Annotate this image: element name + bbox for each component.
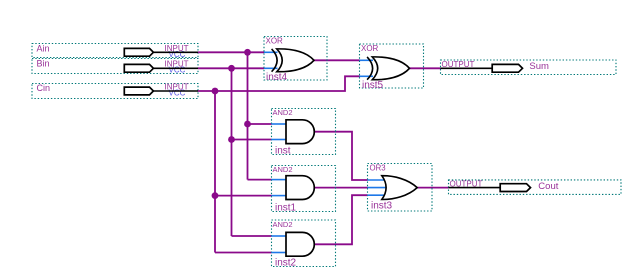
wire Bin to AND2 inst bottom input (232, 139, 272, 141)
wire AND2 inst output down to OR3 top input (314, 132, 367, 180)
svg-text:inst1: inst1 (275, 202, 297, 213)
wire Ain to AND2 inst top input (248, 123, 272, 125)
and gate inst2 (272, 220, 336, 269)
svg-text:XOR: XOR (266, 37, 284, 46)
output pin Sum (441, 60, 617, 75)
svg-text:VCC: VCC (169, 50, 186, 59)
output pin Cout (449, 180, 622, 195)
wire Cin vertical branch x=215 (214, 91, 216, 253)
svg-text:VCC: VCC (169, 89, 186, 98)
svg-text:Bin: Bin (37, 59, 50, 69)
wire Ain branch corner to AND2 inst1 top input (248, 179, 272, 181)
input pin Cin (32, 83, 198, 99)
wire Cin horizontal then up to XOR inst5 bottom input (198, 76, 360, 91)
wire AND2 inst2 output up to OR3 bottom input (314, 195, 367, 244)
svg-text:Ain: Ain (37, 43, 50, 53)
junction Bin to inst (228, 136, 235, 143)
svg-text:inst2: inst2 (275, 257, 297, 268)
wire Ain horizontal to XOR inst4 top input (198, 51, 264, 53)
svg-text:AND2: AND2 (273, 108, 293, 117)
input pin Bin (32, 59, 198, 75)
wire OR3 output to OUTPUT Cout (417, 187, 448, 189)
svg-text:inst5: inst5 (362, 80, 384, 91)
svg-text:inst: inst (275, 146, 291, 157)
svg-text:inst3: inst3 (371, 200, 393, 211)
svg-text:XOR: XOR (361, 44, 379, 53)
svg-text:OUTPUT: OUTPUT (450, 180, 483, 189)
junction Cin to inst1 (212, 192, 219, 199)
xor gate inst4 (264, 37, 327, 83)
junction Ain branch (244, 49, 251, 56)
junction Bin branch (228, 65, 235, 72)
wire Bin branch corner to AND2 inst2 top input (232, 235, 272, 237)
wire XOR inst5 output to OUTPUT Sum (409, 67, 441, 69)
xor gate inst5 (360, 44, 424, 91)
svg-text:AND2: AND2 (273, 165, 293, 174)
junction Ain to inst (244, 121, 251, 128)
wire XOR inst4 output to XOR inst5 top input (314, 59, 360, 61)
wire Cin to AND2 inst1 bottom input (215, 195, 272, 197)
or gate inst3 (368, 163, 433, 211)
wire Ain vertical branch x=247.5 (247, 52, 249, 179)
svg-text:Cout: Cout (538, 181, 558, 192)
wire Cin branch corner to AND2 inst2 bottom input (215, 252, 272, 254)
svg-text:Sum: Sum (529, 61, 549, 72)
svg-text:Cin: Cin (37, 83, 51, 93)
input pin Ain (32, 43, 198, 59)
wire Bin horizontal to XOR inst4 bottom input (198, 67, 264, 69)
svg-text:AND2: AND2 (273, 220, 293, 229)
junction Cin branch (212, 88, 219, 95)
svg-text:inst4: inst4 (266, 72, 288, 83)
wire Bin vertical branch x=231.5 (231, 68, 233, 236)
svg-text:OUTPUT: OUTPUT (442, 60, 475, 69)
svg-text:OR3: OR3 (370, 163, 386, 172)
svg-text:VCC: VCC (169, 66, 186, 75)
and gate inst1 (272, 165, 336, 213)
wire AND2 inst1 output to OR3 middle input (314, 187, 367, 189)
and gate inst (272, 108, 336, 157)
